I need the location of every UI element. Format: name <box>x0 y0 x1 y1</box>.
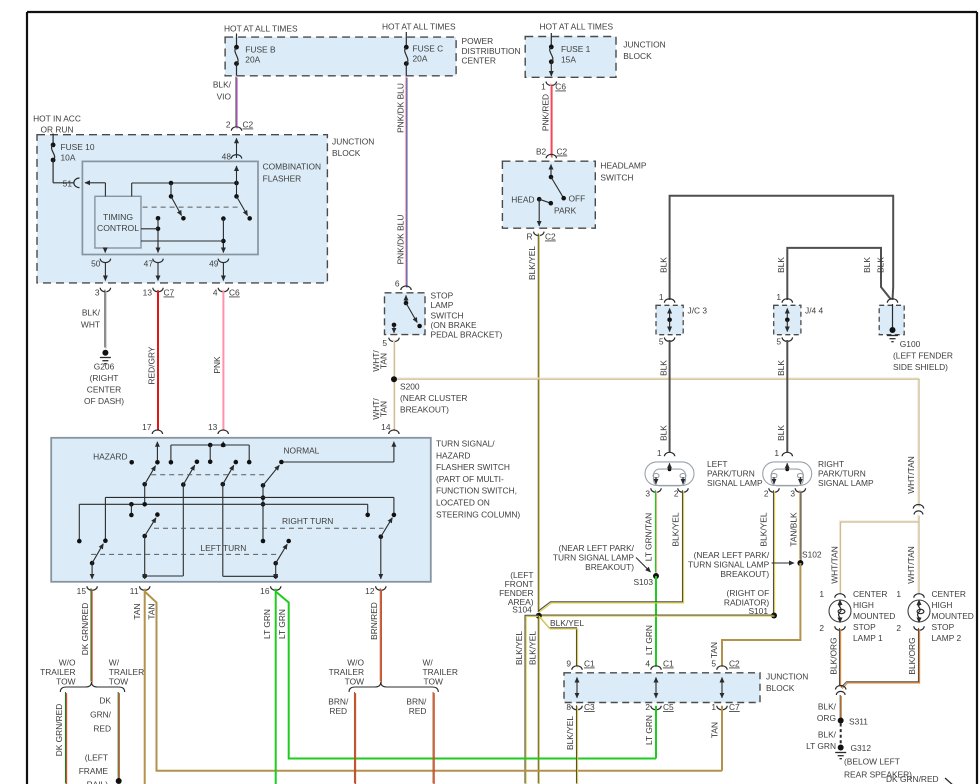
wire BLK (J/4 4 pin1 to G100) <box>787 248 891 300</box>
stop lamp 1 pin2 arrow <box>839 617 841 623</box>
wire fuse10 to pin 51 <box>52 160 54 183</box>
svg-text:HOT AT ALL TIMES: HOT AT ALL TIMES <box>224 23 298 33</box>
wire BLK/WHT <box>105 290 106 349</box>
svg-text:DK GRN/RED: DK GRN/RED <box>80 603 90 656</box>
svg-text:C1: C1 <box>663 659 674 669</box>
hazard blade <box>145 466 156 485</box>
wire stub contact <box>209 445 211 462</box>
connector pin 1 C7 <box>717 706 727 710</box>
svg-text:20A: 20A <box>245 54 260 64</box>
contact (pin11 target) <box>155 512 160 517</box>
wire stub to switch A pivot <box>170 183 172 196</box>
contact (pin16 target) <box>286 539 291 544</box>
svg-text:HIGH: HIGH <box>932 600 953 610</box>
pin 49 exit arrow <box>222 243 224 253</box>
wire contact to pin 47 <box>157 218 159 249</box>
svg-text:11: 11 <box>130 586 139 596</box>
svg-text:JUNCTION: JUNCTION <box>332 137 374 147</box>
svg-text:BLK/YEL: BLK/YEL <box>759 512 769 546</box>
svg-text:BLK: BLK <box>658 257 668 273</box>
pin 16 exit arrow <box>275 576 277 579</box>
svg-text:C6: C6 <box>229 288 240 298</box>
left lamp pin2 arrow <box>682 477 684 484</box>
normal blade <box>263 465 279 485</box>
connector J/4 4 pin 1 <box>782 299 792 303</box>
mechanical link (hazard row) <box>151 474 266 476</box>
svg-text:LAMP 2: LAMP 2 <box>932 633 962 643</box>
ground G206 <box>102 350 108 356</box>
svg-text:SWITCH: SWITCH <box>431 311 464 321</box>
left lamp pin 1 <box>664 452 674 456</box>
contact (mid unused) <box>129 513 134 518</box>
wire PNK/RED <box>551 84 552 158</box>
right park/turn signal lamp <box>763 462 812 486</box>
wire timing control feed 2 <box>131 183 133 196</box>
svg-text:4: 4 <box>645 659 650 669</box>
pin12 blade <box>381 518 393 537</box>
connector pin 14 <box>389 430 399 434</box>
connector pin B2 C2 <box>546 154 556 158</box>
svg-text:FUSE C: FUSE C <box>413 44 444 54</box>
node timing-47 <box>156 227 161 232</box>
pin 47 exit arrow <box>157 243 159 253</box>
svg-text:1: 1 <box>776 292 781 302</box>
stop lamp switch box <box>385 293 426 335</box>
left lamp pin 2 <box>678 488 688 492</box>
wire LT GRN (pin 16 straight) <box>275 589 277 784</box>
svg-text:S102: S102 <box>802 550 822 560</box>
svg-text:TAN/BLK: TAN/BLK <box>789 512 799 547</box>
svg-text:FRAME: FRAME <box>79 766 109 776</box>
svg-text:S104: S104 <box>512 605 532 615</box>
stop lamp 2 pin1 arrow <box>918 600 920 606</box>
right lamp pin1 arrow <box>786 463 788 469</box>
svg-text:(LEFT: (LEFT <box>85 753 108 763</box>
pin 2 arrow <box>236 138 238 158</box>
svg-text:W/: W/ <box>423 657 434 667</box>
contact HEAD <box>537 197 542 202</box>
wire contact to pin 49 <box>222 219 224 249</box>
pin15 blade pivot <box>90 561 95 566</box>
svg-text:G100: G100 <box>900 339 921 349</box>
connector pin R C2 <box>534 232 544 236</box>
brace trailer tow option (right) <box>349 682 438 692</box>
svg-text:TAN: TAN <box>709 642 719 658</box>
splice S102 <box>797 560 803 566</box>
switch A blade <box>171 196 182 215</box>
svg-text:BLK: BLK <box>776 360 786 376</box>
wire BLK/YEL (S104 down right) <box>538 615 539 784</box>
wire hazard pivot to bus H2 <box>144 484 146 504</box>
svg-text:BLK/: BLK/ <box>818 730 837 740</box>
svg-text:CENTER: CENTER <box>853 589 887 599</box>
in-line connector (WHT/TAN) <box>913 504 923 508</box>
svg-text:BRN/: BRN/ <box>328 696 349 706</box>
svg-text:2: 2 <box>819 623 824 633</box>
svg-text:B2: B2 <box>536 147 547 157</box>
svg-text:BLK/ORG: BLK/ORG <box>907 637 917 674</box>
svg-text:FUNCTION SWITCH,: FUNCTION SWITCH, <box>436 486 517 496</box>
svg-text:LEFT TURN: LEFT TURN <box>201 543 247 553</box>
wire PNK/DK BLU <box>406 77 407 288</box>
svg-text:MOUNTED: MOUNTED <box>932 611 974 621</box>
page border top <box>27 11 977 13</box>
fuse 1 output arrow <box>550 62 552 76</box>
J/C3 arrow up <box>669 309 671 320</box>
svg-text:STOP: STOP <box>853 622 876 632</box>
pin 15 exit arrow <box>91 563 93 579</box>
svg-text:TURN SIGNAL LAMP: TURN SIGNAL LAMP <box>553 553 635 563</box>
wire BLK/ORG (stop lamp 1) <box>840 628 841 687</box>
leader arrow to S103 <box>636 558 651 573</box>
wire BLK/LT GRN (S311 to G312) <box>840 724 842 745</box>
wire pin16 pivot down <box>275 563 277 576</box>
contact pin 5 <box>392 323 397 328</box>
blade2 pivot <box>181 482 186 487</box>
svg-text:HAZARD: HAZARD <box>436 450 470 460</box>
blade3 pivot <box>221 482 226 487</box>
contact (pin 47 side) <box>156 216 161 221</box>
stop lamp 2 pin 2 <box>914 626 924 630</box>
wire BRN/RED (w/ trailer tow) <box>433 692 434 784</box>
wire LT GRN/TAN (left lamp pin3 to S103) <box>656 490 657 573</box>
wire timing control to node 49 <box>141 240 223 242</box>
right lamp pin3 arrow <box>799 477 801 484</box>
wire BLK/ORG (to S311) <box>840 695 841 719</box>
splice S104 <box>536 613 542 619</box>
wire timing control to node <box>141 228 158 230</box>
turn signal / hazard flasher switch box <box>51 438 431 582</box>
svg-text:5: 5 <box>382 338 387 348</box>
svg-text:BLOCK: BLOCK <box>766 683 795 693</box>
connector pin 13 <box>218 430 228 434</box>
wire DK GRN/RED (w/o trailer tow) <box>66 692 67 784</box>
svg-text:RED/GRY: RED/GRY <box>147 346 157 384</box>
fuse 1 <box>549 45 554 65</box>
svg-text:LAMP 1: LAMP 1 <box>853 633 883 643</box>
svg-text:J/C 3: J/C 3 <box>688 306 708 316</box>
svg-text:BLK/YEL: BLK/YEL <box>528 631 538 665</box>
svg-text:DK GRN/RED: DK GRN/RED <box>886 774 939 784</box>
wire BLK (J/C3 to left lamp) <box>669 340 671 452</box>
svg-text:NORMAL: NORMAL <box>284 446 320 456</box>
svg-text:PARK/TURN: PARK/TURN <box>707 469 755 479</box>
node switch A feed <box>169 181 174 186</box>
connector pin 2 C2 <box>231 127 241 131</box>
center high mounted stop lamp 2 <box>908 600 930 622</box>
wire WHT/TAN to stop lamp 1 <box>840 521 920 595</box>
connector pin 6 <box>401 286 411 290</box>
svg-text:50: 50 <box>91 259 101 269</box>
svg-text:C1: C1 <box>584 659 595 669</box>
leader arrow to S102 <box>772 562 795 564</box>
svg-text:POWER: POWER <box>462 36 494 46</box>
wire BLK/YEL (S104 to S101) <box>538 615 774 616</box>
svg-text:TOW: TOW <box>424 676 443 686</box>
headlamp switch pivot <box>549 175 554 180</box>
svg-text:ORG: ORG <box>817 713 836 723</box>
left lamp pin3 arrow <box>655 477 657 484</box>
svg-text:BRN/RED: BRN/RED <box>369 602 379 640</box>
page border left <box>26 12 28 784</box>
svg-text:TAN: TAN <box>146 603 156 619</box>
stop lamp 2 pin2 arrow <box>918 617 920 623</box>
svg-text:S200: S200 <box>400 382 420 392</box>
pin 13 arrow <box>222 442 224 445</box>
blade2 <box>183 465 194 484</box>
connector pin 15 <box>87 586 97 590</box>
svg-text:5: 5 <box>776 337 781 347</box>
pin 12 exit arrow <box>380 537 382 579</box>
svg-text:49: 49 <box>209 259 219 269</box>
svg-text:FUSE 1: FUSE 1 <box>561 44 591 54</box>
connector pin 47 <box>153 259 163 263</box>
stop lamp switch contact <box>417 324 422 329</box>
svg-text:PEDAL BRACKET): PEDAL BRACKET) <box>431 330 503 340</box>
svg-text:G206: G206 <box>94 362 115 372</box>
connector pin 13 C7 <box>153 288 163 292</box>
svg-text:HOT AT ALL TIMES: HOT AT ALL TIMES <box>540 21 614 31</box>
node H2 <box>261 502 266 507</box>
svg-text:TAN: TAN <box>379 353 389 369</box>
svg-text:LOCATED ON: LOCATED ON <box>436 498 490 508</box>
svg-text:(NEAR LEFT PARK/: (NEAR LEFT PARK/ <box>558 543 634 553</box>
ground (left frame rail) <box>116 778 122 784</box>
contact NORMAL <box>279 460 284 465</box>
svg-text:48: 48 <box>222 152 232 162</box>
connector pin 5 <box>389 338 399 342</box>
contact HAZARD position <box>129 460 134 465</box>
svg-text:PNK/DK BLU: PNK/DK BLU <box>395 83 405 133</box>
svg-text:BREAKOUT): BREAKOUT) <box>720 569 769 579</box>
wire BLK/YEL (pin 8 C3 down) <box>577 705 578 784</box>
svg-text:1: 1 <box>896 589 901 599</box>
svg-text:SWITCH: SWITCH <box>600 173 633 183</box>
svg-text:2: 2 <box>674 489 679 499</box>
junction block internal link <box>576 678 578 688</box>
svg-text:RED: RED <box>93 724 111 734</box>
svg-text:G312: G312 <box>851 743 872 753</box>
stop lamp 1 pin1 arrow <box>839 600 841 606</box>
svg-text:2: 2 <box>764 489 769 499</box>
svg-text:TRAILER: TRAILER <box>109 667 144 677</box>
svg-text:STOP: STOP <box>431 291 454 301</box>
svg-text:CENTER: CENTER <box>932 589 966 599</box>
svg-text:16: 16 <box>260 586 270 596</box>
headlamp switch arrow to B2 <box>550 165 552 178</box>
svg-text:1: 1 <box>657 448 662 458</box>
node pin13 bus <box>208 443 213 448</box>
wire TAN/BLK (right lamp pin3 to S102) <box>800 490 801 560</box>
pin16 blade <box>276 544 288 563</box>
fuse B <box>234 45 239 66</box>
svg-text:LEFT: LEFT <box>707 459 727 469</box>
svg-text:C3: C3 <box>584 702 595 712</box>
timing control box <box>95 196 141 248</box>
svg-text:PNK: PNK <box>212 356 222 374</box>
svg-text:PARK/TURN: PARK/TURN <box>818 469 866 479</box>
stop lamp 2 pin 1 <box>914 594 924 598</box>
svg-text:FUSE 10: FUSE 10 <box>61 142 95 152</box>
svg-text:12: 12 <box>365 586 375 596</box>
svg-text:WHT: WHT <box>81 320 100 330</box>
wire BLK (J/C3 pin1 to G100) <box>670 196 894 300</box>
svg-text:CENTER: CENTER <box>462 56 496 66</box>
contact (pin 49 side) <box>221 216 226 221</box>
svg-text:BLK: BLK <box>776 257 786 273</box>
bus H1 <box>105 496 394 498</box>
svg-text:TURN SIGNAL/: TURN SIGNAL/ <box>436 439 495 449</box>
junction block internal link <box>721 678 723 688</box>
wire blade3 pivot down <box>222 484 224 576</box>
svg-text:C7: C7 <box>729 702 740 712</box>
wire normal pivot down <box>262 485 264 541</box>
svg-text:5: 5 <box>711 659 716 669</box>
svg-text:(RIGHT: (RIGHT <box>90 373 119 383</box>
svg-text:SIDE SHIELD): SIDE SHIELD) <box>893 362 948 372</box>
page border right <box>976 12 978 784</box>
wire BLK/YEL (headlamp to S104) <box>538 234 539 614</box>
J/C3 arrow down <box>669 320 671 332</box>
wire TAN (pin 1 C7 down) <box>721 706 723 771</box>
wire RED/GRY <box>157 290 159 430</box>
svg-text:C2: C2 <box>729 659 740 669</box>
stop lamp switch pivot <box>404 301 409 306</box>
J/4 4 arrow up <box>786 309 788 320</box>
svg-text:HIGH: HIGH <box>853 600 874 610</box>
contact (right unused) <box>365 513 370 518</box>
contact (left unused) <box>77 539 82 544</box>
svg-text:DISTRIBUTION: DISTRIBUTION <box>462 46 521 56</box>
contact (pin13 right) <box>247 460 252 465</box>
switch A contact <box>181 216 186 221</box>
hazard blade pivot <box>142 482 147 487</box>
connector pin 9 C1 <box>572 666 582 670</box>
blade HEAD-PARK <box>539 199 551 203</box>
contact pin 17 <box>155 460 160 465</box>
svg-text:LT GRN: LT GRN <box>277 609 287 639</box>
node pin13 <box>221 443 226 448</box>
connector pin 1 C6 <box>546 82 556 86</box>
svg-text:DK GRN/RED: DK GRN/RED <box>54 704 64 757</box>
svg-text:OF DASH): OF DASH) <box>84 396 124 406</box>
pin16 blade pivot <box>273 561 278 566</box>
right lamp pin 2 <box>769 488 779 492</box>
pin12 blade pivot <box>379 534 384 539</box>
wire BLK/VIO <box>236 77 237 129</box>
center high mounted stop lamp 1 <box>829 600 851 622</box>
wire into fuse C <box>405 32 407 47</box>
pin 48 arrow <box>236 166 238 183</box>
wire BLK (J/4 4 to right lamp) <box>786 340 788 452</box>
junction block box (left, combination flasher) <box>37 135 327 283</box>
svg-text:S311: S311 <box>849 717 868 727</box>
svg-text:JUNCTION: JUNCTION <box>623 40 665 50</box>
blade3 <box>223 465 234 484</box>
switch B blade <box>237 196 248 215</box>
svg-text:HAZARD: HAZARD <box>93 452 127 462</box>
svg-text:PNK/DK BLU: PNK/DK BLU <box>395 215 405 265</box>
svg-text:(ON BRAKE: (ON BRAKE <box>431 320 477 330</box>
connector pin 49 <box>218 259 228 263</box>
pin 49 arrow to junction block edge <box>222 262 224 281</box>
pin 17 arrow <box>156 442 158 463</box>
contact (pin12 fed) <box>392 513 397 518</box>
svg-text:LT GRN: LT GRN <box>644 625 654 655</box>
svg-text:1: 1 <box>819 589 824 599</box>
svg-text:WHT/TAN: WHT/TAN <box>830 546 840 584</box>
splice S200 <box>391 376 397 382</box>
svg-text:VIO: VIO <box>217 92 232 102</box>
svg-text:2: 2 <box>896 623 901 633</box>
wire blade2 pivot down <box>182 485 184 576</box>
svg-text:15A: 15A <box>561 54 576 64</box>
wire into fuse 1 <box>550 33 552 47</box>
node timing-49 <box>221 239 226 244</box>
wire into fuse 10 <box>52 134 54 145</box>
connector J/C3 pin 1 <box>664 299 674 303</box>
svg-text:BLOCK: BLOCK <box>332 148 361 158</box>
connector pin 8 C3 <box>572 706 582 710</box>
pin 47 arrow to junction block edge <box>157 262 159 281</box>
switch B pivot <box>234 194 239 199</box>
svg-text:TOW: TOW <box>56 676 75 686</box>
ground G100 <box>890 327 896 333</box>
svg-text:9: 9 <box>566 659 571 669</box>
splice S311 <box>838 718 844 724</box>
svg-text:LT GRN/TAN: LT GRN/TAN <box>644 513 654 561</box>
connector pin 2 C5 <box>651 706 661 710</box>
svg-text:LT GRN: LT GRN <box>644 715 654 745</box>
node pin11 <box>142 574 147 579</box>
normal blade pivot <box>261 483 266 488</box>
svg-text:JUNCTION: JUNCTION <box>766 672 808 682</box>
svg-text:RIGHT: RIGHT <box>818 459 844 469</box>
svg-text:TOW: TOW <box>109 676 128 686</box>
svg-text:TRAILER: TRAILER <box>40 667 75 677</box>
wire DK GRN/RED (w/ trailer tow) <box>118 692 119 780</box>
connector pin 48 <box>231 155 241 159</box>
wire BLK/ORG (stop lamp 2) <box>841 628 920 689</box>
connector pin 51 (arc) <box>74 178 80 188</box>
node H1 <box>261 495 266 500</box>
connector pin 4 C1 <box>651 666 661 670</box>
svg-text:3: 3 <box>645 489 650 499</box>
pin15 blade <box>92 544 103 563</box>
svg-text:HEAD: HEAD <box>511 195 534 205</box>
svg-text:10A: 10A <box>61 152 76 162</box>
wire inside G100 <box>892 304 894 329</box>
wire TAN (S102 to pin 5 C2) <box>722 563 800 667</box>
svg-text:TAN: TAN <box>710 722 720 738</box>
arrow to pin 5 <box>393 325 395 333</box>
svg-text:14: 14 <box>381 422 391 432</box>
J/4 4 arrow down <box>786 320 788 332</box>
pin 11 exit arrow <box>144 576 146 579</box>
pin 51 arrow (into flasher) <box>85 182 95 184</box>
svg-text:RED: RED <box>409 706 427 716</box>
wire DK GRN/RED (pin 15) <box>91 588 92 682</box>
svg-text:C6: C6 <box>555 82 566 92</box>
wire WHT/TAN (S200 to rear) <box>394 378 920 507</box>
wire BRN/RED (w/o trailer tow) <box>355 692 356 784</box>
svg-text:BLK/YEL: BLK/YEL <box>527 246 537 280</box>
svg-text:BLK/ORG: BLK/ORG <box>829 637 839 674</box>
svg-text:C2: C2 <box>557 147 568 157</box>
J/4 4 node <box>785 318 790 323</box>
wire PNK <box>222 290 224 430</box>
svg-text:BREAKOUT): BREAKOUT) <box>400 405 449 415</box>
